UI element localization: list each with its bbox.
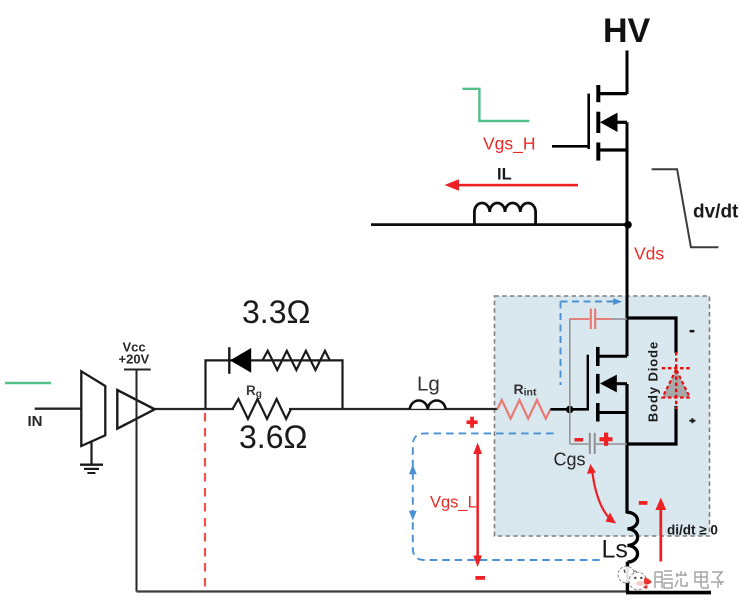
green Vgs_H step waveform [462, 89, 529, 121]
watermark logo [618, 566, 652, 590]
transistor Q2 (low-side MOSFET) [588, 347, 627, 422]
svg-text:Cgs: Cgs [554, 450, 586, 470]
svg-text:Ls: Ls [602, 536, 628, 564]
driver buffer U1 [117, 390, 154, 429]
input stage U1a trapezoid [81, 371, 105, 446]
shaded MOSFET model box [495, 296, 710, 536]
arrow blue down (loop left) [409, 511, 417, 521]
arrow red curved Cgs to source [587, 464, 616, 524]
wire gate drive main [155, 408, 498, 410]
svg-text:3.6Ω: 3.6Ω [239, 419, 307, 455]
capacitor Cgs [570, 433, 627, 454]
label plus (Vgs_L top) [467, 417, 478, 428]
wire switch-node horizontal [371, 223, 627, 226]
wire bottom return thin [137, 590, 628, 592]
wire Ls to return [626, 562, 629, 593]
svg-text:Vgs_L: Vgs_L [430, 494, 477, 512]
wire switch node to Q2 drain [626, 225, 629, 357]
svg-text:di/dt ≥ 0: di/dt ≥ 0 [667, 523, 718, 538]
arrow blue up (loop left) [409, 465, 417, 475]
svg-text:3.3Ω: 3.3Ω [242, 294, 310, 330]
svg-text:IL: IL [497, 166, 512, 184]
wire bypass branch [206, 360, 343, 408]
wire Rint to gate [550, 408, 588, 411]
wire Q2 source vertical [625, 384, 628, 514]
diode D1 [229, 347, 251, 374]
svg-text:+20V: +20V [119, 352, 150, 367]
transistor Q1 (high-side MOSFET) [589, 85, 627, 226]
wire input [35, 408, 82, 410]
inductor L load [474, 203, 535, 225]
capacitor Cgd [570, 309, 628, 330]
blue dashed Vgs_L loop [413, 433, 603, 560]
wire HV rail [626, 51, 629, 95]
svg-text:IN: IN [28, 413, 43, 430]
label minus (Cgs) [575, 438, 584, 442]
body diode D2 [662, 352, 691, 409]
arrow Vgs_L measurement [473, 443, 482, 568]
svg-text:Vgs_H: Vgs_H [483, 134, 536, 155]
ground [80, 441, 103, 473]
svg-text:dv/dt: dv/dt [693, 202, 739, 223]
label minus (Vgs_L bottom) [475, 576, 485, 580]
label plus (Cgs) [600, 433, 613, 446]
resistor 3.3ohm [263, 351, 330, 370]
wire Vcc vertical to return [136, 370, 138, 592]
blue dashed gate loop top arrow [561, 298, 623, 385]
watermark text [655, 571, 724, 588]
wire Vcc rail [124, 369, 151, 371]
inductor Ls [627, 512, 637, 562]
svg-text:Body Diode: Body Diode [646, 341, 661, 422]
svg-text:Lg: Lg [417, 373, 440, 396]
red dashed reference line [204, 413, 206, 590]
green input waveform [5, 382, 51, 384]
wire gate thin vertical [569, 319, 571, 444]
label minus (diode top) [690, 330, 695, 333]
node gate node [566, 406, 574, 414]
resistor Rg 3.6ohm [233, 399, 291, 419]
node switch node [624, 221, 632, 229]
label plus (diode bottom) [689, 418, 695, 423]
svg-text:Vds: Vds [634, 244, 664, 264]
arrow di/dt [655, 498, 666, 562]
dv/dt waveform [652, 169, 719, 247]
wire body-diode loop [627, 318, 676, 444]
svg-text:Rg: Rg [246, 383, 262, 400]
label minus (di/dt) [639, 501, 648, 505]
inductor Lg [410, 399, 446, 409]
wire bottom return thick [626, 591, 711, 595]
wire Q1 gate lead [552, 145, 589, 148]
resistor Rint [497, 400, 550, 420]
arrow IL current [445, 179, 579, 191]
svg-text:HV: HV [603, 12, 651, 50]
